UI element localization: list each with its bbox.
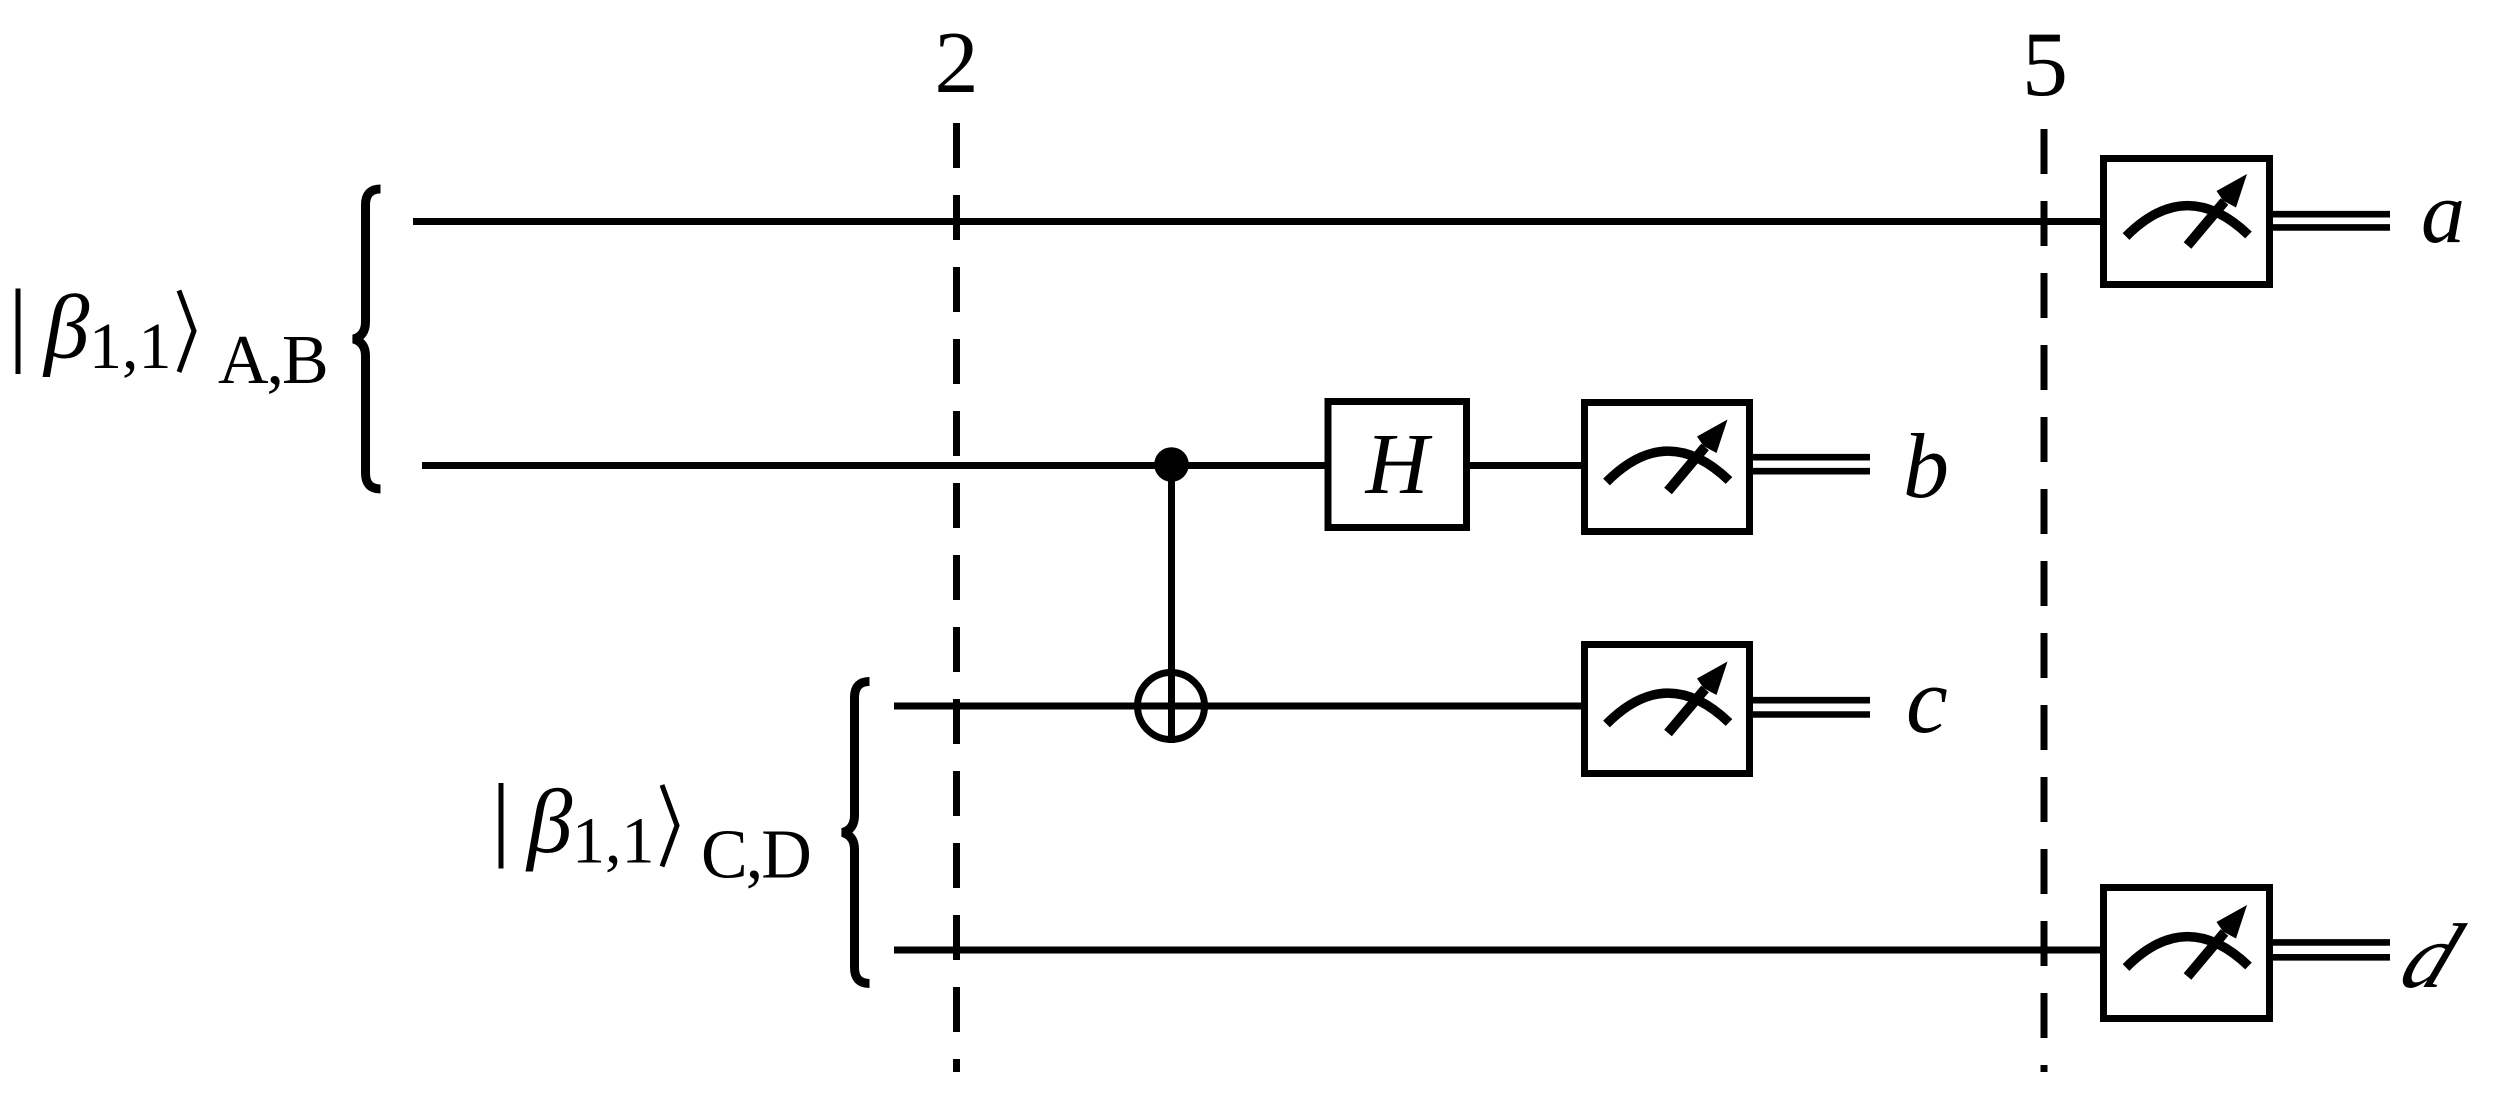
- svg-text:A,B: A,B: [218, 322, 327, 399]
- svg-text:C,D: C,D: [701, 817, 810, 894]
- svg-text:d: d: [2388, 905, 2476, 1007]
- svg-text:2: 2: [935, 15, 979, 112]
- svg-text:1,1: 1,1: [89, 310, 172, 383]
- svg-text:1,1: 1,1: [572, 805, 655, 878]
- svg-text:β: β: [525, 771, 573, 872]
- svg-text:5: 5: [2022, 13, 2068, 115]
- svg-text:b: b: [1903, 415, 1949, 517]
- svg-text:a: a: [2421, 165, 2465, 262]
- svg-text:c: c: [1906, 649, 1948, 753]
- svg-text:β: β: [42, 277, 90, 378]
- svg-text:H: H: [1365, 415, 1433, 512]
